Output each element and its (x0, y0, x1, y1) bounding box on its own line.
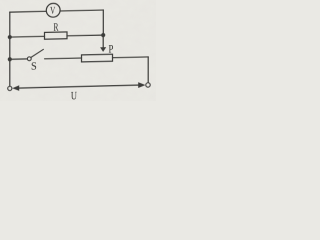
wire wiper stem (102, 35, 104, 48)
potentiometer wiper arrow P (100, 47, 106, 52)
node junction dot left resistor (8, 35, 12, 39)
svg-text:V: V (50, 4, 56, 16)
arrowhead left of U line (12, 85, 19, 91)
resistor R body (45, 32, 68, 39)
wire resistor left lead (10, 35, 45, 38)
paper background (0, 0, 156, 101)
wire potentiometer right lead (113, 56, 149, 59)
terminal circle right (146, 83, 150, 87)
wire switch left lead (10, 58, 28, 60)
wire U span line (19, 85, 139, 88)
potentiometer P body (82, 54, 113, 62)
switch S pivot circle (27, 57, 31, 61)
wire resistor right lead (67, 34, 103, 37)
svg-text:U: U (71, 90, 78, 101)
wire switch to potentiometer (45, 57, 82, 60)
svg-text:S: S (31, 60, 37, 73)
wire top right segment (60, 9, 103, 12)
node junction dot right (101, 33, 105, 37)
terminal circle left (8, 86, 12, 90)
voltmeter V1 circle (46, 3, 60, 17)
arrowhead right of U line (138, 82, 145, 88)
wire left vertical (9, 12, 11, 86)
wire right vertical to bottom terminal (147, 57, 149, 83)
svg-text:P: P (109, 43, 114, 55)
switch S lever (31, 49, 44, 57)
node junction dot switch (8, 57, 12, 61)
wire right vertical from top to resistor node (102, 10, 104, 35)
wire top left segment (10, 10, 47, 13)
svg-text:R: R (54, 21, 59, 34)
